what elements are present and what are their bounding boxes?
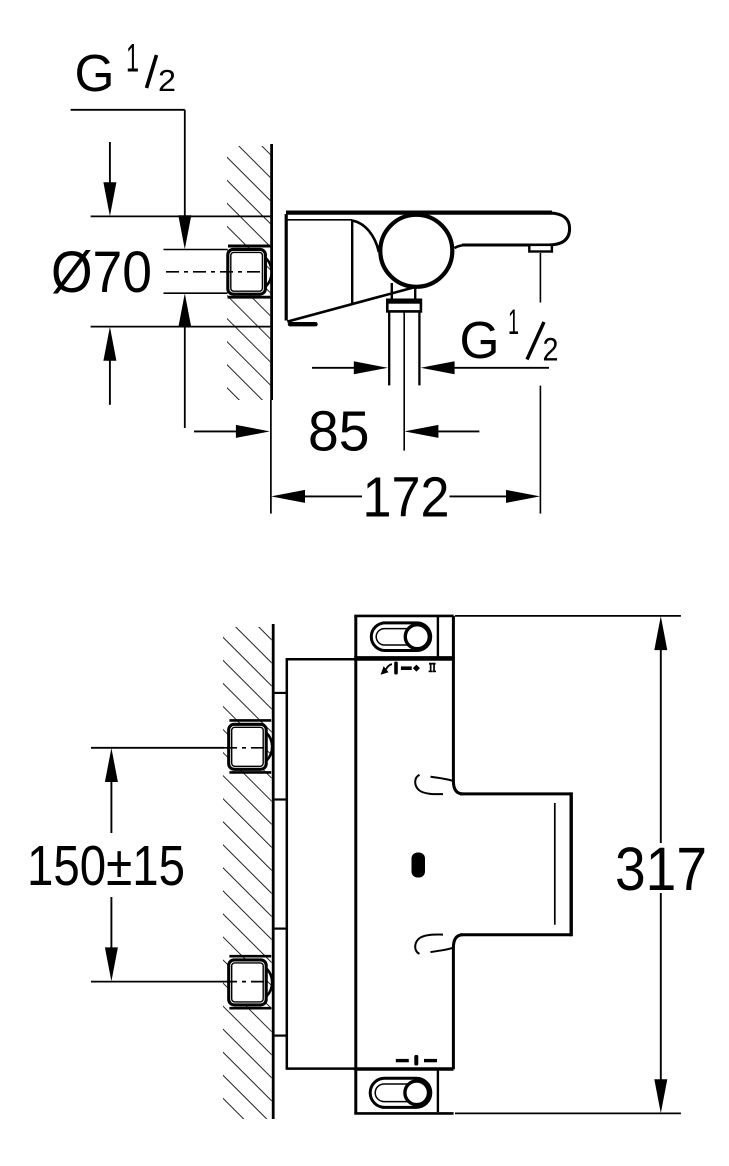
svg-text:317: 317 bbox=[615, 835, 707, 903]
svg-text:85: 85 bbox=[308, 400, 370, 464]
svg-text:G: G bbox=[460, 312, 500, 370]
svg-text:150±15: 150±15 bbox=[27, 834, 185, 898]
svg-text:1: 1 bbox=[508, 303, 519, 342]
svg-text:2: 2 bbox=[543, 332, 559, 368]
svg-text:172: 172 bbox=[363, 466, 450, 530]
svg-text:G: G bbox=[75, 45, 115, 103]
svg-text:2: 2 bbox=[158, 63, 176, 98]
svg-text:Ø70: Ø70 bbox=[51, 240, 152, 305]
svg-text:1: 1 bbox=[126, 37, 139, 81]
